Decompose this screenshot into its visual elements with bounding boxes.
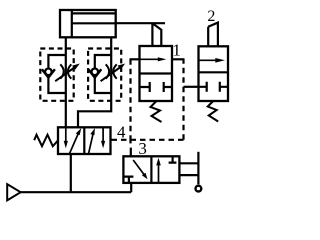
valve 3 right box blocked port: [169, 156, 177, 162]
valve 1 flow arrow: [140, 58, 160, 60]
valve 3 divider: [150, 156, 152, 183]
valve 1 plunger stem: [152, 23, 161, 46]
valve 3 roller: [196, 186, 202, 192]
pilot line right vertical (dashed): [182, 59, 184, 140]
pilot line bottom horizontal (dashed): [111, 139, 184, 141]
valve 1 body: [140, 46, 173, 101]
valve 4 left box down arrow: [65, 127, 67, 143]
check valve B seat: [88, 69, 101, 77]
wire cylinder right port (line 2): [78, 37, 111, 127]
wire supply horizontal: [21, 191, 132, 193]
valve 3 left box diagonal arrow: [133, 160, 145, 176]
valve 2 flow arrow: [199, 59, 217, 61]
valve 2 spring: [208, 101, 219, 122]
throttle B arcs: [106, 64, 117, 78]
cylinder body: [60, 10, 116, 37]
flow control unit B dashed enclosure: [88, 49, 121, 101]
svg-text:4: 4: [117, 123, 126, 142]
valve 4 right box down arrow: [102, 127, 104, 143]
valve 2 blocked port left: [199, 82, 207, 92]
piston rod upper line: [72, 12, 116, 14]
svg-text:3: 3: [138, 139, 147, 158]
valve 2 blocked port right: [220, 82, 228, 92]
valve 1 blocked port left: [140, 82, 150, 92]
valve 4 spring: [34, 135, 58, 147]
throttle B adjust arrow: [101, 68, 120, 82]
piston rod lower line: [72, 22, 116, 24]
wire valve 1 left port: [130, 58, 140, 60]
valve 3 body: [123, 156, 179, 183]
wire supply branch to valve 4: [70, 154, 72, 192]
air supply triangle: [7, 184, 20, 200]
flow control B bypass loop: [95, 55, 111, 93]
valve 2 plunger stem: [208, 23, 218, 47]
wire valve 2 left port: [184, 86, 199, 88]
valve 4 divider: [83, 127, 85, 154]
valve 3 roller yoke: [179, 163, 198, 175]
flow control unit A dashed enclosure: [40, 49, 73, 101]
svg-text:2: 2: [207, 8, 215, 25]
throttle A adjust arrow: [55, 68, 74, 82]
valve 1 spring: [151, 101, 162, 122]
valve 3 left box blocked port: [124, 177, 133, 183]
rod striker line: [116, 22, 165, 24]
wire valve 1 right port: [172, 58, 185, 60]
wire valve 3 output up: [130, 148, 132, 157]
valve 4 left box diagonal up arrow: [69, 133, 78, 154]
throttle A arcs: [60, 64, 71, 78]
pilot line junction cross at valve 3 feed: [129, 136, 131, 144]
valve 2 divider: [199, 71, 229, 73]
valve 1 divider: [140, 72, 173, 74]
valve 3 roller lever: [197, 152, 199, 185]
valve 3 right box up arrow: [158, 163, 160, 183]
pilot line left vertical (dashed): [129, 59, 131, 135]
valve 2 body: [199, 46, 229, 101]
check valve A seat: [42, 69, 55, 77]
valve 1 blocked port right: [164, 82, 172, 92]
check valve B ball: [92, 69, 99, 76]
wire cylinder left port (line 1): [65, 37, 67, 127]
piston: [71, 10, 73, 37]
wire supply to valve 3: [130, 183, 132, 192]
svg-text:1: 1: [172, 40, 181, 59]
valve 4 body: [58, 127, 111, 154]
valve 4 right box diagonal up arrow: [89, 133, 94, 154]
flow control A bypass loop: [48, 55, 65, 93]
check valve A ball: [45, 69, 52, 76]
